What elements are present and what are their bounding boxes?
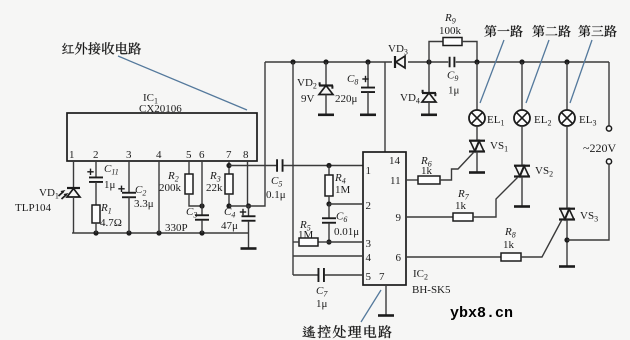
ground below VD2 <box>318 114 334 117</box>
resistor R8 <box>501 253 521 261</box>
capacitor C7 <box>317 268 319 282</box>
svg-text:1: 1 <box>366 165 372 177</box>
triac VS3 <box>559 208 575 210</box>
capacitor C11 <box>89 176 103 178</box>
wire Vcc branch down to C7 row <box>292 62 294 275</box>
svg-text:TLP104: TLP104 <box>15 202 52 214</box>
svg-text:1μ: 1μ <box>104 179 116 191</box>
lamp EL3 <box>559 110 575 126</box>
wire C2 to ground rail <box>128 197 130 233</box>
wire R2 to pin6 node <box>189 194 202 206</box>
wire pin4 IC1 down to ground rail <box>158 161 160 233</box>
svg-text:1μ: 1μ <box>316 298 328 310</box>
wire Vcc top rail left segment <box>265 61 448 63</box>
wire R6 to VS1 gate <box>440 153 474 181</box>
capacitor C5 <box>276 159 278 172</box>
svg-text:1M: 1M <box>335 184 351 196</box>
zener diode VD2 <box>319 84 333 86</box>
svg-text:2: 2 <box>366 200 372 212</box>
label 红外接收电路 (IR receiving circuit) <box>62 43 74 54</box>
resistor R1 <box>92 205 100 223</box>
ground bar below VS1 <box>469 171 485 174</box>
wire R7 to VS2 gate <box>473 178 518 218</box>
wire pin3 IC1 down to C2 <box>128 161 130 192</box>
node VD4 junction <box>426 59 431 64</box>
svg-text:BH-SK5: BH-SK5 <box>412 284 451 296</box>
wire C4 down to ground <box>248 221 250 248</box>
resistor R4 <box>328 166 330 176</box>
wire C6 to pin3 row <box>328 223 330 242</box>
wire to C8 <box>367 62 369 87</box>
svg-text:5: 5 <box>366 271 372 283</box>
wire EL3 to VS3 <box>566 126 568 209</box>
node C8 junction <box>365 59 370 64</box>
svg-text:CX20106: CX20106 <box>139 103 182 115</box>
wire C11 to R1 <box>95 182 97 205</box>
svg-text:330P: 330P <box>165 222 188 234</box>
wire pin4 row <box>293 255 363 257</box>
resistor R5 <box>318 241 329 243</box>
wire R3 to Vcc node row <box>228 194 230 206</box>
svg-text:~220V: ~220V <box>583 141 616 155</box>
wire C5 to IC2 pin 1 <box>283 165 363 167</box>
wire pin2 IC1 down to C11 <box>95 161 97 177</box>
ground below VD4 <box>421 114 437 117</box>
zener diode VD4 <box>422 92 436 94</box>
svg-text:9V: 9V <box>301 93 315 105</box>
wire IC2 pin11 row <box>406 179 418 181</box>
node VD2 junction <box>323 59 328 64</box>
label 第三路 channel 3 <box>578 25 590 37</box>
svg-text:200k: 200k <box>159 182 182 194</box>
lamp EL1 <box>469 110 485 126</box>
svg-text:7: 7 <box>379 271 385 283</box>
node pin7-C5 junction <box>226 163 231 168</box>
svg-text:3.3μ: 3.3μ <box>134 198 154 210</box>
svg-text:4: 4 <box>156 149 162 161</box>
svg-text:47μ: 47μ <box>221 220 238 232</box>
wire R4 to pin2 row <box>328 196 330 204</box>
wire mains right vertical top <box>608 62 610 126</box>
svg-text:22k: 22k <box>206 182 223 194</box>
wire Vcc rail to IC2 pin 14 <box>384 62 386 152</box>
svg-text:100k: 100k <box>439 25 462 37</box>
IC2 BH-SK5 box <box>363 152 406 285</box>
label 遥控处理电路 remote control processing circuit <box>303 326 316 338</box>
blue pointer line channel 2 <box>526 40 549 103</box>
capacitor C8 <box>361 87 375 89</box>
svg-text:5: 5 <box>186 149 192 161</box>
svg-text:ybx8.cn: ybx8.cn <box>450 305 513 322</box>
capacitor C4 <box>248 206 250 216</box>
node R2-C3 junction <box>199 203 204 208</box>
wire pin2 row <box>329 203 363 205</box>
wire VS1 down <box>476 152 478 173</box>
blue pointer line to IR receiver block <box>118 56 247 110</box>
svg-text:1k: 1k <box>455 200 467 212</box>
svg-text:3: 3 <box>366 238 372 250</box>
node C3-ground junction <box>199 230 204 235</box>
resistor R6 <box>418 176 440 184</box>
wire pin3 row right segment <box>329 241 363 243</box>
triac VS2 <box>514 165 530 167</box>
resistor R7 <box>453 213 473 221</box>
label 第一路 channel 1 <box>484 25 496 37</box>
svg-text:7: 7 <box>226 149 232 161</box>
terminal circle mains bottom <box>606 159 611 164</box>
ground below C4 <box>241 247 257 250</box>
svg-text:4.7Ω: 4.7Ω <box>100 217 122 229</box>
svg-text:2: 2 <box>93 149 99 161</box>
blue pointer line channel 1 <box>480 40 504 103</box>
svg-text:1: 1 <box>69 149 75 161</box>
svg-text:0.1μ: 0.1μ <box>266 189 286 201</box>
node EL3 junction <box>564 59 569 64</box>
wire to zener VD4 <box>428 62 430 93</box>
blue pointer line channel 3 <box>570 40 592 103</box>
capacitor C2 <box>122 192 136 194</box>
wire R9 to lamp column <box>462 42 477 63</box>
node R1-ground junction <box>93 230 98 235</box>
ground bar below VS3 <box>559 265 575 268</box>
wire C7 to pin5 <box>325 274 364 276</box>
svg-text:9: 9 <box>396 212 402 224</box>
resistor R3 <box>225 174 233 194</box>
wire R9 bypass loop <box>429 42 443 63</box>
wire IC2 pin6 row <box>406 256 501 258</box>
node C2-ground junction <box>126 230 131 235</box>
wire C8 to ground <box>367 92 369 114</box>
terminal circle mains top <box>606 126 611 131</box>
lamp EL2 <box>514 110 530 126</box>
wire VD1 to ground rail <box>73 197 75 233</box>
wire IC2 pin7 to ground <box>385 285 387 315</box>
node EL1 junction <box>474 59 479 64</box>
wire pin5 row left <box>293 274 318 276</box>
wire VD4 to ground <box>428 102 430 114</box>
node C6-R5 junction <box>326 239 331 244</box>
wire rail to EL1 <box>476 62 478 110</box>
wire pin5 IC1 down to R2 <box>188 161 190 174</box>
wire R8 to VS3 gate <box>521 221 562 258</box>
node pin8-C4 junction <box>246 203 251 208</box>
node pin4-ground junction <box>156 230 161 235</box>
capacitor C6 <box>328 204 330 218</box>
wire pin7 row to C5 <box>229 165 277 167</box>
svg-text:1k: 1k <box>421 165 433 177</box>
node R4 top junction <box>326 163 331 168</box>
svg-text:6: 6 <box>396 252 402 264</box>
triac VS1 <box>469 140 485 142</box>
node EL2 junction <box>519 59 524 64</box>
wire VS2 down <box>521 177 523 207</box>
wire rail to EL2 <box>521 62 523 110</box>
ground below IC2 pin7 <box>378 314 394 317</box>
svg-text:8: 8 <box>243 149 249 161</box>
resistor R2 <box>185 174 193 194</box>
photodiode VD1 <box>67 187 80 189</box>
wire VS3 down to ground bar <box>566 220 568 267</box>
wire pin1 IC1 down to VD1 <box>73 161 75 188</box>
wire pin6 IC1 down to C3 <box>201 161 203 215</box>
node R3 bottom junction <box>226 203 231 208</box>
svg-text:0.01μ: 0.01μ <box>334 226 359 238</box>
ground below C8 <box>360 114 376 117</box>
node R4-C6 junction <box>326 201 331 206</box>
wire IC2 pin9 row <box>406 216 453 218</box>
wire C3 to ground rail <box>201 220 203 233</box>
wire pin7 IC1 down to R3 <box>228 161 230 174</box>
capacitor C3 <box>195 214 209 216</box>
op-amp U IC1 CX20106 box <box>67 113 257 161</box>
svg-text:6: 6 <box>199 149 205 161</box>
svg-text:3: 3 <box>126 149 132 161</box>
svg-text:1k: 1k <box>503 239 515 251</box>
wire VD2 to ground <box>325 95 327 115</box>
svg-text:1μ: 1μ <box>448 85 460 97</box>
wire ground rail bottom <box>74 232 249 234</box>
wire EL2 to VS2 <box>521 126 523 166</box>
label 第二路 channel 2 <box>532 25 544 37</box>
wire to zener VD2 <box>325 62 327 85</box>
svg-text:11: 11 <box>390 175 401 187</box>
blue pointer line to remote processing <box>361 290 381 322</box>
wire R1 to ground rail <box>95 223 97 233</box>
wire pin8 IC1 down to Vcc node row <box>247 161 249 206</box>
wire Vcc top rail right segment <box>456 61 609 63</box>
svg-text:220μ: 220μ <box>335 93 358 105</box>
node Vcc-R5 branch junction <box>290 59 295 64</box>
wire Vcc node row to right riser <box>229 62 265 206</box>
ground bar below VS2 <box>514 205 530 208</box>
svg-text:14: 14 <box>389 155 401 167</box>
svg-text:4: 4 <box>366 252 372 264</box>
node VS3-mains junction <box>564 237 569 242</box>
resistor R9 <box>443 38 462 46</box>
wire rail to EL3 <box>566 62 568 110</box>
wire mains bottom to VS3 <box>567 164 609 240</box>
capacitor C9 <box>449 57 451 68</box>
svg-text:1M: 1M <box>298 229 314 241</box>
wire EL1 to VS1 <box>476 126 478 141</box>
diode VD3 <box>392 55 408 69</box>
